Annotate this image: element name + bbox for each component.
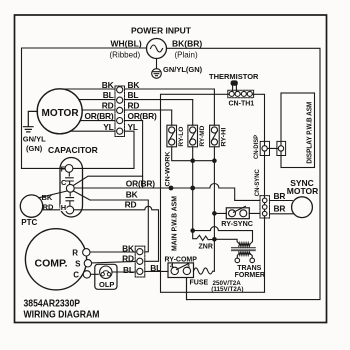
svg-text:S: S xyxy=(75,260,81,269)
svg-text:CN-WORK: CN-WORK xyxy=(164,151,171,186)
svg-text:RY-LO: RY-LO xyxy=(178,127,185,147)
svg-text:YL: YL xyxy=(128,122,138,132)
svg-text:COMP.: COMP. xyxy=(35,258,68,270)
svg-text:OR(BR): OR(BR) xyxy=(128,111,157,121)
svg-text:GN/YL(GN): GN/YL(GN) xyxy=(163,65,203,74)
svg-text:RD: RD xyxy=(128,101,140,111)
svg-text:MOTOR: MOTOR xyxy=(42,108,80,119)
svg-text:PTC: PTC xyxy=(21,218,37,227)
svg-text:(GN): (GN) xyxy=(26,144,43,153)
svg-text:CN-DISP: CN-DISP xyxy=(253,135,260,159)
svg-text:CN-TH1: CN-TH1 xyxy=(229,101,255,108)
svg-text:BK: BK xyxy=(126,189,138,199)
svg-text:OLP: OLP xyxy=(99,280,114,289)
svg-text:C: C xyxy=(73,270,79,279)
svg-text:(Ribbed): (Ribbed) xyxy=(110,51,141,60)
svg-text:H: H xyxy=(61,203,66,212)
svg-text:BL: BL xyxy=(103,90,114,100)
svg-text:YL: YL xyxy=(103,122,113,132)
svg-text:BK: BK xyxy=(42,193,53,202)
svg-text:WIRING DIAGRAM: WIRING DIAGRAM xyxy=(24,310,100,321)
svg-text:FORMER: FORMER xyxy=(235,272,265,279)
svg-text:OR(BR): OR(BR) xyxy=(126,179,155,189)
svg-text:BR: BR xyxy=(274,191,286,201)
svg-text:4: 4 xyxy=(170,263,174,270)
svg-text:BR: BR xyxy=(274,203,286,213)
svg-text:RD: RD xyxy=(102,101,114,111)
svg-text:FUSE: FUSE xyxy=(190,280,209,287)
svg-text:RD: RD xyxy=(43,202,54,211)
svg-text:3854AR2330P: 3854AR2330P xyxy=(24,299,81,310)
svg-text:GN/YL: GN/YL xyxy=(23,135,46,144)
svg-text:R: R xyxy=(72,248,78,257)
svg-text:3: 3 xyxy=(186,263,190,270)
svg-text:BK(BR): BK(BR) xyxy=(172,38,202,48)
svg-text:BK: BK xyxy=(102,80,114,90)
svg-text:BK: BK xyxy=(122,243,134,253)
svg-text:(Plain): (Plain) xyxy=(175,51,198,60)
svg-text:ZNR: ZNR xyxy=(199,243,213,250)
svg-text:RY-SYNC: RY-SYNC xyxy=(221,219,253,228)
svg-text:OR(BR): OR(BR) xyxy=(84,111,113,121)
svg-text:C: C xyxy=(61,178,67,187)
svg-text:WH(BL): WH(BL) xyxy=(111,38,142,48)
svg-text:MOTOR: MOTOR xyxy=(287,186,318,196)
svg-text:RY-MD: RY-MD xyxy=(199,125,206,146)
svg-text:RD: RD xyxy=(122,254,134,264)
svg-text:DISPLAY P.W.B ASM: DISPLAY P.W.B ASM xyxy=(307,101,314,163)
svg-text:MAIN P.W.B ASM: MAIN P.W.B ASM xyxy=(171,196,178,251)
svg-text:BL: BL xyxy=(150,263,161,273)
svg-text:THERMISTOR: THERMISTOR xyxy=(209,72,259,81)
svg-text:(115V/T2A): (115V/T2A) xyxy=(211,286,243,293)
svg-text:RY-HI: RY-HI xyxy=(220,127,227,146)
svg-text:BL: BL xyxy=(128,90,139,100)
svg-text:CN-SYNC: CN-SYNC xyxy=(254,169,261,196)
svg-text:RD: RD xyxy=(125,199,137,209)
svg-text:BL: BL xyxy=(123,265,134,275)
svg-text:POWER INPUT: POWER INPUT xyxy=(131,26,192,36)
svg-text:F: F xyxy=(61,164,66,173)
svg-text:CAPACITOR: CAPACITOR xyxy=(48,145,98,155)
svg-text:BK: BK xyxy=(128,80,140,90)
